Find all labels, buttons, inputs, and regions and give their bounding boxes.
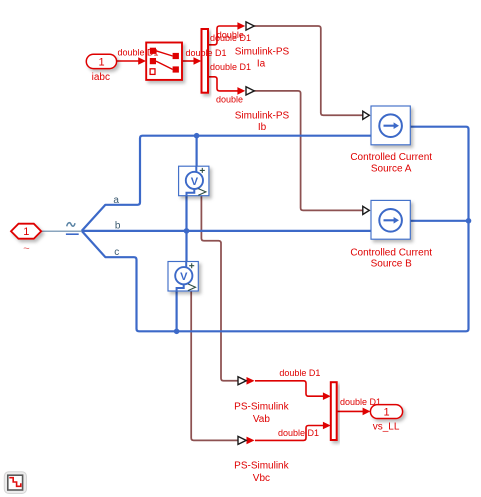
svg-text:double D1: double D1 bbox=[279, 368, 320, 378]
svg-text:b: b bbox=[115, 220, 121, 231]
svg-text:double: double bbox=[216, 95, 243, 105]
svg-text:PS-Simulink: PS-Simulink bbox=[234, 461, 289, 472]
svg-text:Source B: Source B bbox=[371, 258, 412, 269]
svg-text:double D1: double D1 bbox=[210, 33, 251, 43]
svg-text:V: V bbox=[191, 176, 199, 188]
svg-text:vs_LL: vs_LL bbox=[373, 422, 400, 433]
svg-text:double D1: double D1 bbox=[186, 48, 227, 58]
svg-text:1: 1 bbox=[23, 226, 29, 238]
svg-text:PS-Simulink: PS-Simulink bbox=[234, 401, 289, 412]
svg-text:~: ~ bbox=[23, 243, 29, 255]
svg-text:Controlled Current: Controlled Current bbox=[350, 152, 432, 163]
svg-text:double D1: double D1 bbox=[210, 62, 251, 72]
svg-text:V: V bbox=[180, 271, 188, 283]
svg-text:1: 1 bbox=[383, 406, 389, 418]
svg-text:a: a bbox=[113, 195, 119, 206]
svg-text:Controlled Current: Controlled Current bbox=[350, 247, 432, 258]
svg-text:Source A: Source A bbox=[371, 164, 412, 175]
svg-text:double D1: double D1 bbox=[340, 397, 381, 407]
svg-text:double D1: double D1 bbox=[118, 48, 159, 58]
svg-text:1: 1 bbox=[98, 56, 104, 68]
svg-text:c: c bbox=[114, 247, 119, 258]
svg-text:double D1: double D1 bbox=[278, 428, 319, 438]
svg-text:Ia: Ia bbox=[257, 59, 266, 70]
svg-text:Vbc: Vbc bbox=[253, 473, 270, 484]
svg-text:Ib: Ib bbox=[258, 122, 267, 133]
svg-text:Simulink-PS: Simulink-PS bbox=[235, 111, 290, 122]
svg-text:Vab: Vab bbox=[253, 414, 270, 425]
svg-text:iabc: iabc bbox=[92, 72, 110, 83]
svg-text:Simulink-PS: Simulink-PS bbox=[235, 46, 290, 57]
